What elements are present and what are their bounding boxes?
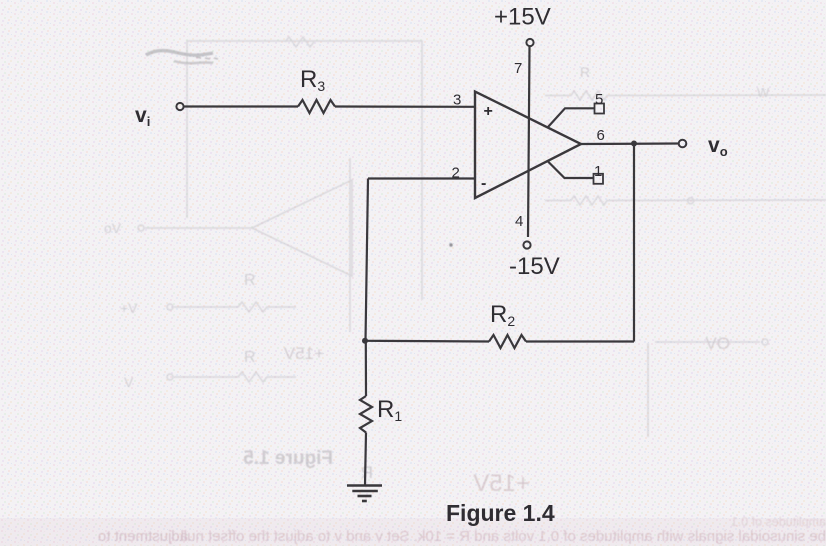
ghost resistor top [285,37,314,47]
svg-text:oV: oV [104,220,122,236]
ghost labels [104,64,770,390]
ghost wire A [145,227,252,229]
speck [449,243,452,246]
bottom pink wash [0,518,826,546]
output terminal vo [679,140,687,148]
svg-text:6: 6 [597,127,605,144]
svg-text:5: 5 [595,91,603,108]
svg-text:1: 1 [594,163,602,180]
ghost vertical [349,158,351,332]
svg-text:V: V [124,374,134,390]
wire node down to R1 [365,341,367,396]
svg-text:-: - [481,175,486,192]
supply wire through [528,47,530,237]
ghost figure caption (mirrored) [243,448,530,497]
ghost wire B with resistor [174,302,296,312]
svg-text:R: R [361,463,373,482]
feedback vertical wire [633,144,635,342]
svg-text:R: R [580,64,590,80]
svg-text:W: W [757,85,770,100]
svg-text:-15V: -15V [509,253,560,280]
svg-text:+V: +V [120,300,138,316]
ghost box top [187,41,422,300]
output wire [581,142,678,145]
resistor R3 [298,100,335,113]
svg-text:7: 7 [514,60,522,77]
svg-text:+15V: +15V [283,344,324,363]
svg-text:+15V: +15V [473,470,530,497]
ghost right wires [545,91,826,100]
ground [347,484,382,487]
bottom bleed text (mirrored) [98,515,826,545]
svg-text:OV: OV [705,334,730,353]
svg-text:R: R [244,349,256,366]
svg-text:+15V: +15V [494,4,551,31]
svg-text:R: R [244,272,256,289]
+15V terminal [526,39,533,46]
output node junction [631,141,637,147]
svg-text:+: + [484,103,493,120]
wire pin2 vertical [366,179,369,341]
feedback bottom wire with resistor R2 [526,340,634,342]
svg-text:3: 3 [453,92,461,109]
-15V terminal [523,241,530,248]
resistor R2 [489,335,526,348]
ghost wire C with resistor [174,372,296,382]
wire R1 to ground [365,433,366,486]
input terminal vi [176,103,183,110]
svg-text:Figure 1.5: Figure 1.5 [243,448,333,469]
resistor R1 [360,396,372,433]
wire pin2 horizontal [368,177,475,179]
svg-text:4: 4 [515,213,523,230]
main circuit [176,39,686,501]
wire R3 to pin 3 [335,105,475,108]
offset null pin5 [548,108,594,127]
svg-text:Figure 1.4: Figure 1.4 [446,500,555,526]
node junction dot [362,338,368,344]
ghost smudge [146,51,213,56]
wire R2 to node [365,340,489,343]
svg-text:2: 2 [452,165,460,182]
op-amp U1 [475,92,581,199]
wire input to R3 [184,105,298,107]
offset null pin1 [548,162,593,179]
ghost op-amp triangle [252,180,352,276]
